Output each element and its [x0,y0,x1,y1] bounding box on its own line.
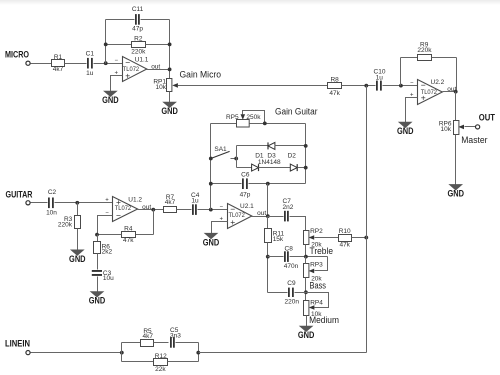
junction [266,182,270,186]
wire [268,256,284,258]
wire [211,183,242,185]
svg-text:220k: 220k [417,47,432,54]
svg-text:−: − [220,204,224,210]
wire [97,254,99,270]
junction [104,43,108,47]
svg-text:C8: C8 [285,246,294,253]
svg-text:47k: 47k [123,237,134,244]
svg-text:Bass: Bass [310,280,327,290]
junction [196,351,200,355]
wire [250,123,306,125]
diode D3 [268,142,275,149]
wire [298,167,306,169]
resistor R7 [164,194,177,213]
wire [106,19,135,21]
svg-text:U1.1: U1.1 [135,57,149,64]
wire [237,167,252,169]
wire [199,352,367,354]
svg-text:4k7: 4k7 [165,199,176,206]
wire [236,146,238,168]
wire [98,234,122,236]
svg-text:47k: 47k [329,90,340,97]
labels D1 D3 D2 1N4148 [255,152,296,166]
wire [306,293,329,308]
svg-text:GND: GND [447,189,464,200]
svg-text:47k: 47k [339,242,350,249]
op-amp U2.2 [410,79,457,105]
wire [138,209,164,211]
terminal MICRO [26,61,30,65]
wire [97,277,99,292]
wire [94,63,123,65]
svg-text:C1: C1 [86,51,95,58]
junction [304,144,308,148]
capacitor C11 [132,6,144,32]
terminal LINEIN [26,351,30,355]
resistor R12 [154,353,168,373]
potentiometer RP6 [439,121,464,135]
junction [234,157,238,161]
wire [290,256,328,258]
wire [121,343,123,362]
capacitor C3 [92,270,114,282]
junction [209,208,213,212]
potentiometer RP1 [153,79,178,92]
wire (mix bus) [366,86,368,353]
svg-text:RP5: RP5 [226,114,239,121]
svg-text:U2.1: U2.1 [240,203,254,210]
svg-text:RP4: RP4 [310,300,323,307]
junction [304,290,308,294]
junction [209,157,213,161]
wire [237,145,269,147]
wire [168,361,199,363]
capacitor C9 [285,280,300,305]
svg-text:1N4148: 1N4148 [258,159,281,166]
op-amp U1.1 [115,57,161,82]
svg-text:TL072: TL072 [115,205,132,212]
wire [249,183,306,185]
svg-text:Gain Guitar: Gain Guitar [275,107,318,117]
wire [401,57,418,59]
svg-text:220n: 220n [285,298,300,305]
wire [97,235,99,242]
junction [266,255,270,259]
svg-text:GND: GND [102,95,119,106]
junction [104,61,108,65]
svg-text:3n3: 3n3 [170,332,181,339]
svg-text:470n: 470n [284,263,299,270]
wire [98,216,113,235]
svg-text:10n: 10n [46,210,57,217]
wire [290,217,306,231]
wire [315,237,339,239]
junction [95,233,99,237]
wire [122,361,154,363]
junction [304,166,308,170]
svg-text:1u: 1u [376,75,384,82]
resistor R11 [265,229,285,244]
wire [105,20,107,64]
svg-text:10u: 10u [103,275,114,282]
wire [212,222,228,234]
wire [305,124,307,184]
wire [342,85,376,87]
svg-text:2n2: 2n2 [283,204,294,211]
svg-text:4k7: 4k7 [53,66,64,73]
svg-text:−: − [410,80,414,86]
wire [77,203,79,216]
svg-text:10k: 10k [441,126,452,133]
wire [383,85,418,87]
wire [465,126,476,128]
op-amp U1.2 [105,197,151,222]
svg-text:TL072: TL072 [123,66,140,73]
capacitor C6 [240,171,251,198]
wire [305,245,307,257]
ground [102,91,119,106]
wire [243,111,265,124]
potentiometer RP4 [304,300,324,319]
switch SA1 [211,146,237,158]
resistor R2 [131,35,146,55]
svg-text:2k2: 2k2 [102,249,113,256]
wire [259,167,291,169]
svg-text:GND: GND [397,126,414,137]
wire [31,63,52,65]
svg-text:1u: 1u [191,197,199,204]
svg-text:out: out [257,210,266,217]
svg-text:OUT: OUT [479,112,495,123]
svg-text:+: + [105,198,109,204]
ground [203,233,220,248]
wire [268,216,284,218]
wire [456,58,458,92]
diode D1 [252,164,259,171]
terminal OUT [476,125,480,129]
svg-text:220k: 220k [58,222,73,229]
wire [275,145,306,147]
svg-text:Gain Micro: Gain Micro [180,70,222,80]
wire [198,209,228,211]
svg-text:Treble: Treble [310,246,334,256]
wire [211,123,237,125]
svg-text:R8: R8 [330,77,339,84]
svg-text:RP3: RP3 [310,261,323,268]
capacitor C7 [283,198,294,221]
svg-text:R2: R2 [134,35,143,42]
wire [31,202,48,204]
svg-text:R4: R4 [124,226,133,233]
junction [209,182,213,186]
capacitor C4 [191,192,200,215]
potentiometer RP5 [226,114,261,127]
svg-text:4k7: 4k7 [143,333,154,340]
resistor R9 [417,42,432,61]
junction [263,122,267,126]
ground [89,292,106,307]
svg-text:250k: 250k [246,114,261,121]
wire [177,209,192,211]
svg-text:−: − [115,58,119,64]
wire [111,76,123,92]
wire [106,44,132,46]
svg-text:R12: R12 [155,353,167,360]
junction [454,90,458,94]
wire [267,243,269,293]
svg-text:R1: R1 [54,54,63,61]
svg-text:220k: 220k [131,48,146,55]
svg-text:Master: Master [461,135,487,145]
svg-text:15k: 15k [273,236,284,243]
resistor R5 [141,328,154,347]
svg-text:10k: 10k [156,84,167,91]
resistor R10 [339,228,352,249]
wire [443,91,456,93]
diode D2 [290,164,297,171]
svg-text:47p: 47p [132,25,143,32]
ground [161,102,178,117]
potentiometer RP2 [304,228,324,248]
capacitor C8 [284,246,299,271]
svg-text:GND: GND [298,330,315,341]
wire [210,124,212,210]
svg-text:GND: GND [203,237,220,248]
svg-text:LINEIN: LINEIN [5,339,30,350]
junction [75,201,79,205]
wire [306,316,308,327]
svg-text:22k: 22k [155,366,166,373]
resistor R8 [328,77,342,97]
resistor R4 [122,226,136,244]
svg-text:GND: GND [89,296,106,307]
junction [399,84,403,88]
wire [305,278,307,301]
capacitor C5 [170,327,181,348]
junction [266,214,270,218]
svg-text:Medium: Medium [309,315,339,325]
ground [69,250,86,265]
wire [65,63,87,65]
svg-text:C6: C6 [241,171,250,178]
junction [151,208,155,212]
capacitor C1 [86,51,95,77]
junction [364,236,368,240]
wire [455,92,457,121]
wire [198,343,200,362]
svg-text:47p: 47p [240,191,251,198]
wire [268,292,288,294]
wire [295,292,306,294]
wire [136,234,154,236]
svg-text:C11: C11 [132,6,144,13]
junction [168,43,172,47]
wire [122,342,141,344]
wire [169,20,171,79]
wire [176,342,199,344]
svg-text:R10: R10 [339,228,351,235]
wire [153,210,155,235]
ground [447,185,464,200]
resistor R6 [94,242,113,256]
wire [252,216,268,218]
capacitor C2 [46,189,57,217]
svg-text:MICRO: MICRO [5,49,29,60]
svg-text:U1.2: U1.2 [128,197,142,204]
junction [168,68,172,72]
wire [146,44,170,46]
wire [315,257,328,271]
junction [120,351,124,355]
wire [267,184,269,217]
svg-text:RP2: RP2 [310,228,323,235]
wire [141,19,170,21]
wire [352,237,367,239]
wire [178,85,328,87]
wire [432,57,457,59]
op-amp U2.1 [220,203,267,228]
svg-text:GND: GND [69,254,86,265]
resistor R3 [58,216,81,229]
svg-text:1u: 1u [86,70,94,77]
junction [304,255,308,259]
wire [400,58,402,86]
ground [298,326,315,341]
svg-text:GND: GND [161,106,178,117]
wire [77,229,79,251]
junction [364,84,368,88]
svg-text:C9: C9 [287,280,296,287]
wire [147,69,170,71]
svg-text:TL072: TL072 [421,89,438,96]
wire [305,257,307,264]
wire [267,217,269,229]
wire [169,92,171,103]
resistor R1 [52,54,65,73]
svg-text:TL072: TL072 [229,212,246,219]
svg-text:−: − [116,211,121,221]
svg-text:D2: D2 [288,152,297,159]
wire [154,342,169,344]
potentiometer RP3 [304,261,324,282]
wire [31,352,122,354]
terminal GUITAR [26,201,30,205]
svg-text:SA1: SA1 [214,146,227,153]
svg-text:GUITAR: GUITAR [6,190,33,201]
svg-text:C2: C2 [48,189,57,196]
wire [406,98,418,123]
svg-text:U2.2: U2.2 [431,79,445,86]
wire [55,202,113,204]
ground [397,122,414,137]
wire [455,135,457,185]
capacitor C10 [374,69,386,91]
